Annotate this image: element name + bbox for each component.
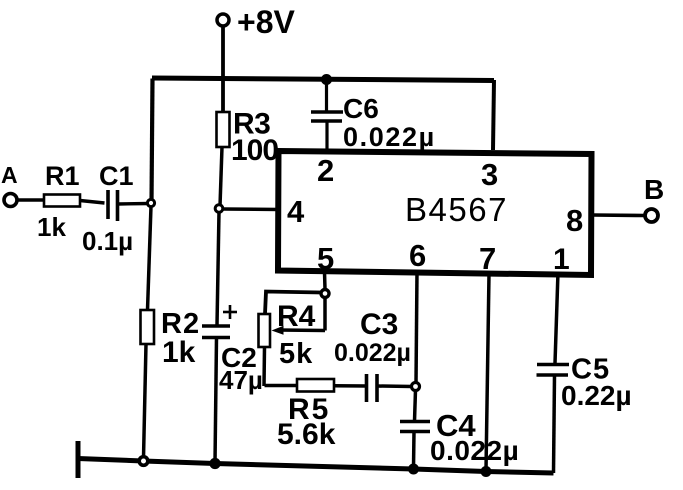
wire C5 to ground corner	[554, 375, 555, 473]
node input junction	[147, 199, 154, 206]
terminal A	[4, 194, 17, 207]
wire C6 top	[325, 79, 328, 112]
wire R3 bottom to node	[220, 147, 222, 206]
svg-text:1: 1	[553, 243, 570, 276]
wire R1 to C1	[80, 201, 105, 204]
wire pin 8 to B	[592, 213, 645, 217]
svg-text:100: 100	[231, 134, 278, 167]
resistor R2	[141, 310, 155, 344]
junction pin7-ground	[481, 466, 492, 477]
wire R2 branch: node down to R2	[148, 206, 152, 310]
capacitor C3	[367, 374, 378, 402]
wire pin 6 down	[416, 272, 417, 383]
ground bar	[76, 441, 81, 478]
svg-text:R1: R1	[45, 161, 80, 191]
wire pin 7 down	[486, 274, 489, 470]
wire R4 to R5	[265, 384, 298, 388]
junction C4-ground	[408, 464, 419, 475]
resistor R4	[259, 314, 271, 347]
terminal B	[645, 209, 658, 222]
svg-text:0.022µ: 0.022µ	[430, 435, 519, 466]
svg-text:C6: C6	[343, 93, 379, 124]
wire pin5 node left to R4 top	[265, 292, 322, 315]
resistor R1	[44, 195, 80, 207]
svg-text:C1: C1	[99, 161, 134, 191]
node R3/pin4 junction	[215, 205, 223, 213]
wire R5 to C3	[334, 384, 367, 388]
wire pin 1 down	[555, 272, 558, 363]
wire +8V down to R3	[221, 27, 225, 114]
wire pin 5 down	[323, 272, 327, 289]
wire rail to pin 3	[493, 80, 494, 150]
svg-text:5: 5	[317, 241, 334, 276]
wire left rail vertical	[152, 79, 153, 204]
wire node down to C2	[217, 212, 219, 325]
svg-text:A: A	[1, 162, 18, 188]
wire R2 bottom to ground	[144, 344, 147, 458]
node pin 6 junction	[412, 383, 420, 391]
wire C4 to ground	[412, 432, 416, 469]
svg-text:7: 7	[479, 241, 496, 276]
capacitor C2 plus sign	[223, 305, 237, 319]
svg-text:0.022µ: 0.022µ	[334, 339, 411, 367]
svg-text:8: 8	[566, 203, 583, 238]
junction C6 on rail	[322, 75, 332, 85]
svg-text:1k: 1k	[162, 336, 196, 369]
svg-text:0.22µ: 0.22µ	[561, 380, 632, 411]
wire R4 wiper vertical	[323, 297, 327, 331]
wire R4 wiper arrow	[278, 328, 325, 332]
svg-text:1k: 1k	[37, 212, 66, 242]
wire pin6 node to C4	[415, 390, 416, 421]
junction R2-ground	[139, 457, 148, 466]
svg-text:0.022µ: 0.022µ	[343, 122, 436, 152]
resistor R3	[217, 112, 230, 147]
wire R4 bottom down	[262, 347, 266, 386]
wire A to R1	[17, 198, 44, 201]
capacitor C2	[202, 326, 230, 338]
wire C3 to pin6 node	[378, 384, 413, 388]
wire C1 to node	[118, 202, 149, 206]
wire C2 bottom to ground	[215, 338, 217, 464]
resistor R5	[297, 379, 334, 392]
capacitor C6	[311, 112, 343, 121]
svg-text:C3: C3	[360, 308, 398, 341]
svg-text:B: B	[644, 174, 664, 205]
svg-text:+8V: +8V	[237, 4, 295, 40]
svg-text:5k: 5k	[279, 338, 313, 370]
junction C2-ground	[209, 458, 220, 469]
capacitor C5	[537, 365, 570, 376]
capacitor C4	[400, 422, 430, 432]
wire C6 bottom to pin 2	[325, 121, 328, 150]
svg-text:47µ: 47µ	[219, 365, 263, 395]
op-amp/IC U1 B4567	[278, 151, 592, 275]
svg-text:0.1µ: 0.1µ	[82, 226, 133, 256]
capacitor C1	[108, 190, 118, 221]
svg-text:3: 3	[481, 157, 498, 192]
wire ground rail	[78, 459, 554, 474]
wire top +8V rail	[152, 78, 494, 81]
svg-text:5.6k: 5.6k	[277, 418, 336, 451]
svg-text:4: 4	[287, 194, 305, 229]
node pin 5 junction	[321, 290, 329, 298]
terminal +8V	[217, 14, 229, 26]
svg-text:2: 2	[317, 153, 334, 188]
svg-text:B4567: B4567	[405, 191, 508, 228]
svg-text:6: 6	[409, 238, 426, 273]
wire node to pin 4	[223, 207, 280, 211]
